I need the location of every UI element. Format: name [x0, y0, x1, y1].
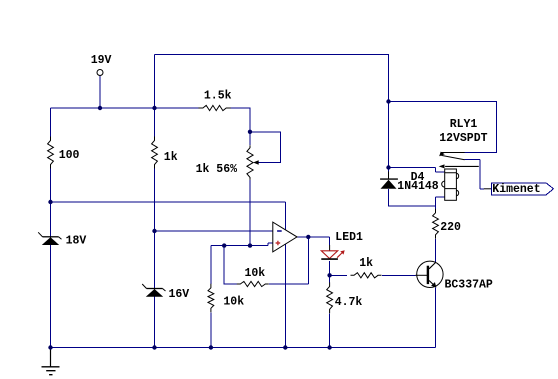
svg-text:16V: 16V — [169, 288, 190, 301]
svg-text:1k: 1k — [359, 257, 373, 270]
svg-text:1.5k: 1.5k — [204, 90, 232, 103]
svg-text:10k: 10k — [223, 295, 244, 308]
svg-text:LED1: LED1 — [335, 231, 363, 244]
svg-text:1N4148: 1N4148 — [397, 180, 439, 193]
svg-text:18V: 18V — [66, 234, 87, 247]
svg-text:4.7k: 4.7k — [335, 296, 363, 309]
svg-text:10k: 10k — [245, 267, 266, 280]
svg-text:19V: 19V — [91, 54, 112, 67]
svg-text:BC337AP: BC337AP — [445, 279, 493, 292]
svg-text:1k: 1k — [164, 151, 178, 164]
svg-text:220: 220 — [440, 221, 461, 234]
svg-text:100: 100 — [59, 149, 80, 162]
svg-text:RLY1: RLY1 — [450, 118, 478, 131]
svg-text:Kimenet: Kimenet — [492, 183, 540, 196]
svg-text:1k 56%: 1k 56% — [196, 163, 238, 176]
svg-text:12VSPDT: 12VSPDT — [439, 132, 487, 145]
